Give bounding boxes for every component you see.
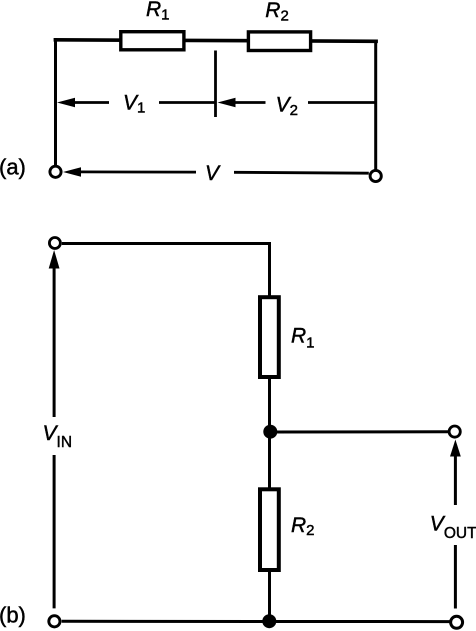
resistor R1 (a)	[121, 32, 184, 50]
label (b)	[0, 603, 26, 628]
wire right (a)	[374, 40, 377, 170]
arrow V2	[218, 98, 377, 107]
label VIN	[43, 422, 73, 451]
resistor R1 (b)	[260, 297, 279, 377]
wire left (a)	[54, 38, 57, 165]
wire top (a)	[54, 40, 378, 42]
terminal left (a)	[50, 166, 61, 177]
wire R1 to junction	[268, 378, 271, 432]
arrow V1	[57, 98, 216, 107]
terminal output bottom	[451, 616, 463, 628]
wire VIN to R1	[62, 244, 270, 298]
svg-text:(a): (a)	[0, 155, 26, 180]
svg-text:V: V	[205, 162, 221, 185]
wire bottom (b)	[62, 620, 450, 623]
label R1 (b)	[291, 325, 315, 352]
svg-text:(b): (b)	[0, 603, 26, 628]
junction node B	[262, 614, 276, 628]
terminal input top	[49, 238, 60, 249]
label R2 (b)	[291, 514, 315, 539]
resistor R2 (a)	[248, 32, 310, 51]
wire R2 to ground junction	[268, 571, 271, 622]
label V2	[276, 93, 298, 119]
wire junction to VOUT terminal	[270, 430, 449, 433]
resistor R2 (b)	[260, 489, 279, 570]
node divider (a)	[214, 51, 217, 118]
label (a)	[0, 155, 26, 180]
terminal right (a)	[370, 170, 381, 181]
wire junction to R2	[268, 431, 271, 489]
arrow VIN	[49, 250, 60, 608]
label VOUT	[430, 513, 476, 543]
label V1	[123, 91, 145, 116]
arrow VOUT	[450, 440, 461, 609]
junction node A	[263, 425, 277, 439]
label R2 (a)	[265, 0, 289, 25]
label R1 (a)	[146, 0, 170, 24]
arrow V	[63, 167, 369, 176]
label V	[205, 162, 221, 185]
terminal output top	[449, 426, 460, 437]
terminal input bottom	[49, 616, 60, 627]
